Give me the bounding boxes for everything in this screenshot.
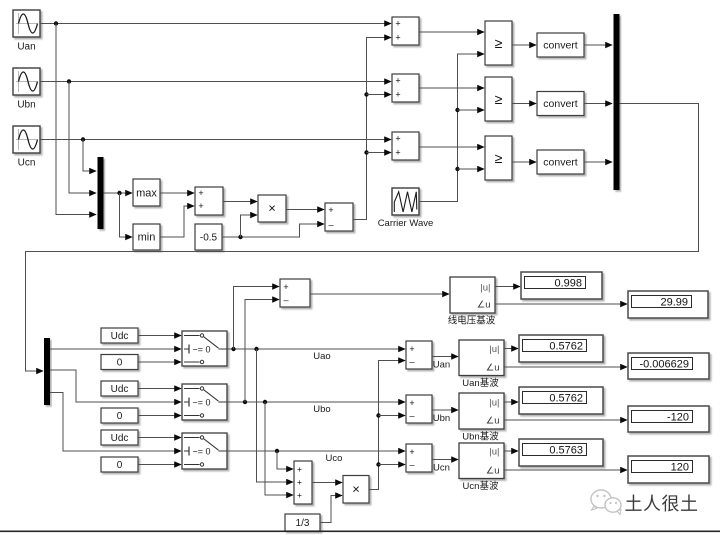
svg-text:Ucn: Ucn <box>18 158 36 169</box>
node carrier junction B <box>455 108 459 112</box>
sine source Ucn <box>13 126 40 169</box>
wire Ubn to Sum B <box>40 81 391 83</box>
wire Uan to Sum A <box>40 23 391 25</box>
switch Switch1 <box>182 331 227 366</box>
fourier block line-voltage 线电压基波 <box>448 277 496 327</box>
svg-text:Uan: Uan <box>17 42 35 53</box>
wire branch to Sum C input2 <box>367 152 392 154</box>
constant zero3 <box>101 457 138 472</box>
node Ucn junction <box>81 137 85 141</box>
svg-text:–: – <box>283 295 288 305</box>
wire Uco branch down to Sum3 input1 <box>277 451 293 469</box>
wire SumB to RelOpB <box>419 87 484 89</box>
constant -0.5 <box>195 224 222 250</box>
svg-text:–: – <box>409 357 414 367</box>
wire zero1 to Switch1 <box>138 361 181 363</box>
svg-text:≥: ≥ <box>495 150 503 166</box>
wire Mux1 output to max <box>104 192 133 194</box>
wire Fourier4 angle to Display8 <box>504 469 627 471</box>
wire Fourier2 mag to Display3 <box>504 348 518 350</box>
relational operator RelOpC <box>485 136 512 180</box>
svg-text:+: + <box>328 205 333 215</box>
svg-text:Uao: Uao <box>313 351 330 362</box>
constant zero2 <box>101 408 138 423</box>
svg-text:线电压基波: 线电压基波 <box>448 315 496 327</box>
constant Udc2 <box>101 381 138 396</box>
wire Demux1 out1 to Switch1 control <box>50 348 181 350</box>
wire Ubo branch up to Sum4 minus <box>245 300 279 403</box>
wire convert3 to Mux2 <box>584 161 612 163</box>
sum Sum6 <box>406 395 432 423</box>
svg-text:0.5762: 0.5762 <box>549 393 583 405</box>
node Product2 line junction Sum6 <box>376 413 380 417</box>
label Uao <box>313 351 330 362</box>
svg-text:0.998: 0.998 <box>554 278 582 290</box>
wire Mux2 feedback to Demux1 <box>26 104 699 372</box>
svg-text:Uan: Uan <box>433 360 450 371</box>
svg-text:~= 0: ~= 0 <box>193 398 211 408</box>
mux Mux2 <box>614 14 620 190</box>
svg-text:|u|: |u| <box>489 344 499 355</box>
wire Udc3 to Switch3 <box>138 437 181 439</box>
node -0.5 junction <box>238 235 242 239</box>
svg-text:Ucn基波: Ucn基波 <box>463 480 499 492</box>
wire RelOpB to convert2 <box>512 103 536 105</box>
wire Ubo Switch2 to Sum6 <box>227 401 405 403</box>
wire Uan drop to Mux1 input3 <box>56 24 96 215</box>
constant Udc1 <box>101 328 138 343</box>
block min <box>133 224 160 250</box>
wire Fourier2 angle to Display4 <box>504 366 627 368</box>
svg-text:0: 0 <box>117 411 123 422</box>
wire Sum3 to Product2 <box>312 482 342 484</box>
constant Udc3 <box>101 430 138 445</box>
switch Switch2 <box>182 384 227 420</box>
svg-text:Uco: Uco <box>326 453 343 464</box>
svg-text:-0.006629: -0.006629 <box>639 359 689 371</box>
demux Demux1 <box>44 338 50 405</box>
svg-text:1/3: 1/3 <box>296 518 310 529</box>
svg-text:土人很土: 土人很土 <box>625 494 699 514</box>
wire Sum7 to Fourier4 with label Ucn <box>432 460 458 474</box>
mux Mux1 <box>98 157 104 229</box>
svg-text:120: 120 <box>671 462 689 474</box>
relational operator RelOpA <box>485 21 512 65</box>
wire Product2 up to Sum5 minus <box>369 361 405 490</box>
watermark logo <box>591 490 621 515</box>
wire Fourier3 mag to Display5 <box>504 401 518 403</box>
display Display3 0.5762 <box>519 335 603 362</box>
svg-text:+: + <box>395 76 400 86</box>
svg-text:∠u: ∠u <box>477 300 491 311</box>
svg-text:~= 0: ~= 0 <box>193 345 211 355</box>
svg-text:Udc: Udc <box>111 331 129 342</box>
watermark text 土人很土 <box>625 494 699 514</box>
wire -0.5 branch to Product1 <box>241 215 258 237</box>
block max <box>133 179 160 206</box>
svg-text:Udc: Udc <box>111 384 129 395</box>
wire zero2 to Switch2 <box>138 415 181 417</box>
wire 1/3 to Product2 <box>320 496 342 523</box>
svg-text:Udc: Udc <box>111 433 129 444</box>
block convert2 <box>537 92 584 116</box>
node Uco junction <box>275 449 279 453</box>
wire Fourier1 mag to Display1 <box>495 286 520 288</box>
block convert1 <box>537 33 584 57</box>
node Ubn junction <box>67 79 71 83</box>
svg-text:Ubn基波: Ubn基波 <box>462 431 499 443</box>
svg-text:+: + <box>395 19 400 29</box>
svg-text:+: + <box>395 90 400 100</box>
wire Ubo branch down to Sum3 input3 <box>265 402 293 495</box>
sum SumB <box>392 74 419 102</box>
wire Sum5 to Fourier2 with label Uan <box>432 357 458 371</box>
wire max to Sum1 <box>160 192 194 194</box>
display Display1 0.998 <box>521 272 602 299</box>
fourier block Ucn基波 <box>459 443 504 492</box>
svg-text:29.99: 29.99 <box>660 297 688 309</box>
wire Uco Switch3 to Sum7 <box>227 450 405 452</box>
sum Sum4 <box>280 279 310 307</box>
node Uao junction 2 <box>254 347 258 351</box>
svg-text:≥: ≥ <box>495 35 503 51</box>
display Display2 29.99 <box>628 291 708 318</box>
wire Uao Switch1 to Sum5 <box>227 348 405 350</box>
svg-text:min: min <box>138 232 156 244</box>
svg-text:Ubn: Ubn <box>433 413 450 424</box>
svg-text:∠u: ∠u <box>486 466 500 477</box>
wire branch to Sum B input2 <box>367 94 392 96</box>
svg-text:Ucn: Ucn <box>433 463 450 474</box>
svg-text:+: + <box>297 464 302 474</box>
svg-text:∠u: ∠u <box>486 363 500 374</box>
svg-text:Uan基波: Uan基波 <box>462 377 499 389</box>
wire Ucn to Sum C <box>40 139 391 141</box>
svg-text:Ubo: Ubo <box>313 404 330 415</box>
svg-text:Carrier Wave: Carrier Wave <box>378 218 434 229</box>
sum Sum2 <box>325 203 353 231</box>
sum SumA <box>392 17 419 45</box>
wire RelOpC to convert3 <box>512 161 536 163</box>
wire Demux1 out2 to Switch2 control <box>50 370 181 402</box>
wire branch to Sum7 minus <box>379 464 406 466</box>
display Display6 -120 <box>628 406 709 432</box>
wire Carrier Wave to RelOpA input2 <box>419 54 484 202</box>
product Product2 <box>343 476 369 504</box>
wire Sum6 to Fourier3 with label Ubn <box>432 410 458 424</box>
svg-text:0: 0 <box>117 460 123 471</box>
svg-text:+: + <box>283 282 288 292</box>
wire Sum2 output to Sum A input2 <box>353 38 391 220</box>
svg-text:-0.5: -0.5 <box>200 233 218 244</box>
node Mux1 output junction <box>117 191 121 195</box>
sum SumC <box>392 132 419 160</box>
svg-text:–: – <box>328 220 333 230</box>
display Display7 0.5763 <box>519 439 603 466</box>
svg-text:Ubn: Ubn <box>17 100 35 111</box>
svg-text:+: + <box>198 188 203 198</box>
svg-text:+: + <box>395 134 400 144</box>
sum Sum3 <box>294 461 312 504</box>
wire Sum4 to Fourier1 <box>310 293 449 295</box>
constant zero1 <box>101 355 138 370</box>
wire Uao branch down to Sum3 input2 <box>257 349 294 482</box>
svg-text:+: + <box>297 490 302 500</box>
label Uco <box>326 453 343 464</box>
svg-text:×: × <box>268 201 276 216</box>
node Sum2 line junction B <box>364 92 368 96</box>
wire carrier branch to RelOpC input2 <box>458 168 485 170</box>
svg-text:∠u: ∠u <box>486 416 500 427</box>
sum Sum7 <box>406 444 432 472</box>
source Carrier Wave <box>378 188 434 229</box>
svg-text:convert: convert <box>543 157 578 169</box>
sum Sum1 <box>195 187 223 215</box>
node Ubo junction 2 <box>263 400 267 404</box>
node Sum2 line junction C <box>364 150 368 154</box>
svg-text:≥: ≥ <box>495 91 503 107</box>
wire convert1 to Mux2 <box>584 44 612 46</box>
product Product1 <box>258 195 286 222</box>
wire branch down to min <box>120 193 133 237</box>
wire SumC to RelOpC <box>419 146 484 148</box>
wire Udc2 to Switch2 <box>138 388 181 390</box>
node carrier junction C <box>455 167 459 171</box>
wire SumA to RelOpA <box>419 31 484 33</box>
sine source Ubn <box>13 68 40 111</box>
wire min to Sum1 <box>160 206 194 237</box>
svg-text:×: × <box>352 482 360 497</box>
bottom rule <box>0 531 720 533</box>
svg-text:+: + <box>395 33 400 43</box>
node Ubo junction 1 <box>243 400 247 404</box>
wire RelOpA to convert1 <box>512 44 536 46</box>
svg-text:max: max <box>136 188 157 200</box>
relational operator RelOpB <box>485 77 512 121</box>
wire Ubn drop to Mux1 input2 <box>69 82 96 194</box>
wire Sum1 to Product1 <box>223 201 257 203</box>
svg-text:~= 0: ~= 0 <box>193 447 211 457</box>
node Uan junction <box>54 21 58 25</box>
block convert3 <box>537 150 584 174</box>
svg-text:+: + <box>395 148 400 158</box>
fourier block Ubn基波 <box>459 393 504 443</box>
switch Switch3 <box>182 433 227 469</box>
svg-text:0.5762: 0.5762 <box>549 341 583 353</box>
svg-text:-120: -120 <box>667 412 689 424</box>
wire Fourier1 angle to Display2 <box>495 303 627 305</box>
svg-text:0: 0 <box>117 358 123 369</box>
sine source Uan <box>13 10 40 53</box>
wire carrier branch to RelOpB input2 <box>458 109 485 111</box>
svg-text:|u|: |u| <box>489 447 499 458</box>
svg-text:+: + <box>297 477 302 487</box>
wire Fourier4 mag to Display7 <box>504 450 518 452</box>
svg-text:+: + <box>409 398 414 408</box>
display Display8 120 <box>628 456 709 483</box>
svg-text:+: + <box>409 344 414 354</box>
svg-text:–: – <box>409 411 414 421</box>
fourier block Uan基波 <box>459 340 504 389</box>
wire Demux1 out3 to Switch3 control <box>50 393 181 452</box>
svg-text:+: + <box>409 447 414 457</box>
svg-text:0.5763: 0.5763 <box>549 445 583 457</box>
svg-text:–: – <box>409 460 414 470</box>
svg-text:convert: convert <box>543 40 578 52</box>
wire branch to Sum6 minus <box>379 415 406 417</box>
wire Fourier3 angle to Display6 <box>504 419 627 421</box>
svg-text:+: + <box>198 201 203 211</box>
display Display4 -0.006629 <box>628 353 709 379</box>
node Uao junction 1 <box>231 347 235 351</box>
wire -0.5 output <box>222 224 324 237</box>
wire zero3 to Switch3 <box>138 464 181 466</box>
display Display5 0.5762 <box>519 387 603 414</box>
svg-text:convert: convert <box>543 98 578 110</box>
node Product2 line junction Sum7 <box>376 462 380 466</box>
label Ubo <box>313 404 330 415</box>
wire Ucn drop to Mux1 input1 <box>83 140 96 172</box>
wire convert2 to Mux2 <box>584 103 612 105</box>
wire Uao branch up to Sum4 plus <box>234 287 280 350</box>
sum Sum5 <box>406 341 432 369</box>
svg-text:|u|: |u| <box>489 398 499 409</box>
wire Udc1 to Switch1 <box>138 335 181 337</box>
wire Product1 to Sum2 <box>286 209 324 211</box>
constant 1/3 <box>285 514 320 531</box>
svg-text:|u|: |u| <box>480 283 490 294</box>
